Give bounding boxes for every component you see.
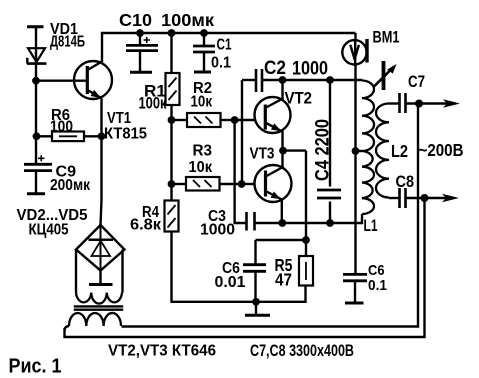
- wire C6(0.01) bottom lead: [254, 272, 256, 302]
- svg-text:10к: 10к: [191, 94, 213, 111]
- svg-text:10к: 10к: [189, 159, 213, 176]
- inductor L1: [362, 81, 374, 215]
- output arrow top: [443, 99, 460, 107]
- wire VD1 cathode lead: [35, 28, 37, 63]
- svg-text:0.1: 0.1: [211, 54, 231, 71]
- svg-text:С8: С8: [396, 172, 415, 191]
- wire rail P (upper bottom rail): [122, 104, 419, 327]
- node VT3 emitter/W1: [278, 219, 286, 227]
- wire line B: C2 left down to VT3 base: [241, 80, 243, 184]
- wire C10 top lead: [139, 33, 141, 45]
- svg-text:VT1: VT1: [107, 110, 131, 127]
- wire C6(0.01) top lead: [254, 240, 256, 264]
- chassis under C6 0.01: [245, 314, 270, 317]
- svg-text:6.8к: 6.8к: [130, 217, 162, 234]
- capacitor C7 plates: [400, 93, 406, 113]
- wire C4 bottom lead: [329, 202, 331, 224]
- wire C2 right to L1 top: [262, 79, 362, 81]
- zener diode VD1: [28, 48, 45, 62]
- node VT2 emitter/VT3 collector: [279, 147, 287, 155]
- wire C8 line with output: [389, 197, 399, 199]
- wire R2 right: [221, 119, 235, 121]
- svg-text:100к: 100к: [139, 95, 168, 113]
- wire R6 left: [37, 135, 53, 137]
- svg-text:КТ815: КТ815: [104, 126, 147, 143]
- wire VD1 anode down to C9: [35, 64, 37, 164]
- wire VT3 collector: [281, 151, 283, 167]
- wire VT3 emitter: [281, 200, 283, 223]
- capacitor C4 plates: [317, 190, 341, 198]
- resistor R2: [187, 113, 221, 127]
- output arrow bottom: [442, 194, 459, 202]
- transistor VT1: [74, 61, 112, 99]
- svg-text:С7: С7: [408, 73, 425, 91]
- wire VT1 emitter down to bridge: [101, 99, 102, 226]
- svg-text:VT2: VT2: [285, 89, 313, 108]
- node C8 output: [421, 194, 429, 202]
- resistor R3: [186, 177, 220, 191]
- wire BM1 top lead: [354, 33, 356, 40]
- wire C4 top lead: [329, 80, 331, 187]
- wire R2 left: [172, 119, 188, 121]
- node C4 top: [326, 76, 334, 84]
- svg-text:BM1: BM1: [373, 28, 400, 47]
- svg-text:100: 100: [50, 119, 73, 136]
- node C6 0.01 bottom rail: [252, 298, 260, 306]
- node R1 top: [168, 29, 176, 37]
- wire R5 vertical: [305, 151, 307, 256]
- capacitor C10 polarity plus: [144, 37, 151, 43]
- svg-text:0.1: 0.1: [368, 277, 387, 294]
- node C10 top: [136, 29, 144, 37]
- node R2 right/VT2 base: [231, 116, 239, 124]
- wire BM1 stem down through L1 tap to C6(0.1): [354, 65, 356, 275]
- svg-text:Рис. 1: Рис. 1: [9, 356, 62, 378]
- wire rail Q (lower bottom rail): [65, 198, 425, 337]
- svg-text:200мк: 200мк: [50, 177, 91, 194]
- node R3 right/VT3 base: [238, 180, 246, 188]
- svg-text:КЦ405: КЦ405: [29, 222, 69, 239]
- wire VT2 emitter to R5 branch: [283, 149, 306, 151]
- node C7 output: [415, 100, 423, 108]
- wire VT1 base: [36, 79, 86, 81]
- wire C6(0.1) bottom stub: [354, 281, 356, 302]
- inductor L2: [376, 104, 389, 198]
- svg-text:47: 47: [275, 270, 292, 290]
- node VT2 collector/C2: [279, 76, 287, 84]
- wire top supply rail: [102, 33, 356, 62]
- wire VT3 base: [242, 183, 256, 185]
- svg-text:1000: 1000: [292, 59, 328, 80]
- transformer T1 upper winding: [76, 293, 122, 304]
- chassis under C6 0.1: [345, 302, 364, 305]
- svg-text:~200В: ~200В: [419, 140, 464, 160]
- wire VT2 collector: [281, 80, 283, 100]
- capacitor C9 polarity plus: [38, 155, 45, 161]
- chassis under C9: [27, 192, 45, 195]
- node R3 left: [168, 180, 176, 188]
- capacitor C1 plates: [193, 46, 215, 52]
- wire bridge left vertical: [75, 250, 77, 293]
- node R6 right: [98, 132, 106, 140]
- node C4 bottom/W1: [326, 219, 334, 227]
- wire R1 top lead: [170, 33, 172, 73]
- svg-text:C2: C2: [264, 58, 286, 79]
- node C1 top: [200, 29, 208, 37]
- wire C7 line with output: [389, 102, 399, 104]
- trimmer arrow symbol: [382, 61, 386, 90]
- capacitor C2 plates: [256, 69, 262, 92]
- chassis under C10: [130, 71, 152, 74]
- bridge rectifier VD2...VD5: [76, 225, 125, 271]
- svg-text:L1: L1: [364, 217, 378, 235]
- capacitor C3 plates: [247, 212, 255, 231]
- wire bridge bottom chassis stub: [99, 271, 101, 284]
- capacitor C10 plates: [126, 44, 158, 47]
- wire C2 left lead: [242, 79, 256, 81]
- resistor R1: [166, 73, 180, 105]
- chassis above VD1: [27, 25, 44, 28]
- capacitor C6 0.01 plates: [243, 265, 266, 272]
- resistor R6: [52, 132, 84, 142]
- svg-text:0.01: 0.01: [215, 274, 246, 291]
- capacitor C9 plates: [24, 164, 52, 170]
- wire R3 left: [172, 183, 187, 185]
- svg-text:Д814Б: Д814Б: [50, 34, 85, 51]
- wire R3 right: [220, 183, 242, 185]
- wire vertical R1-R2-R3-R4 column: [170, 105, 172, 201]
- resistor R4: [165, 201, 179, 232]
- wire chassis stub under C6(0.01): [255, 302, 257, 314]
- svg-text:С4 2200: С4 2200: [312, 119, 334, 181]
- wire bridge right vertical: [121, 250, 123, 293]
- wire VT2 base: [235, 119, 256, 121]
- capacitor C6 0.1 plates: [343, 274, 367, 280]
- wire W1: C3 right along to L1 bottom: [255, 214, 362, 223]
- svg-text:1000: 1000: [200, 222, 235, 239]
- wire VT2 emitter: [281, 131, 283, 151]
- node R1/R2: [168, 116, 176, 124]
- node W2/R5: [302, 236, 310, 244]
- node VD1/VT1 base: [32, 77, 40, 85]
- capacitor C8 plates: [400, 188, 406, 208]
- resistor R5: [299, 256, 313, 286]
- svg-text:VT2,VT3 КТ646: VT2,VT3 КТ646: [108, 343, 216, 360]
- svg-text:L2: L2: [391, 141, 408, 161]
- wire L1 tap tick: [356, 150, 363, 152]
- svg-text:R3: R3: [193, 143, 213, 160]
- transformer T1 lower winding: [69, 313, 121, 326]
- svg-text:C1: C1: [217, 37, 232, 54]
- wire C1 top lead: [203, 33, 205, 46]
- node L1 tap: [352, 147, 360, 155]
- chassis under C1: [194, 71, 211, 74]
- transistor VT3: [255, 165, 292, 202]
- transistor VT2: [255, 97, 291, 133]
- svg-text:C10: C10: [119, 10, 152, 30]
- wire C1 bottom lead: [203, 52, 205, 71]
- wire W2: C6 top tee to R5: [256, 239, 307, 241]
- wire R6 right: [84, 135, 102, 137]
- svg-text:100мк: 100мк: [161, 10, 214, 30]
- wire line A: VT2 base to C3: [235, 120, 246, 223]
- node R6 left: [33, 132, 41, 140]
- wire C9 bottom lead: [35, 172, 37, 193]
- chassis under bridge: [89, 283, 113, 286]
- wire R4 bottom to common rail: [172, 232, 306, 302]
- svg-text:VT3: VT3: [250, 146, 275, 163]
- wire C10 bottom lead: [139, 51, 141, 71]
- svg-text:С7,С8 3300х400В: С7,С8 3300х400В: [250, 342, 354, 360]
- transformer T1 core: [74, 306, 123, 309]
- motor BM1: [342, 40, 366, 64]
